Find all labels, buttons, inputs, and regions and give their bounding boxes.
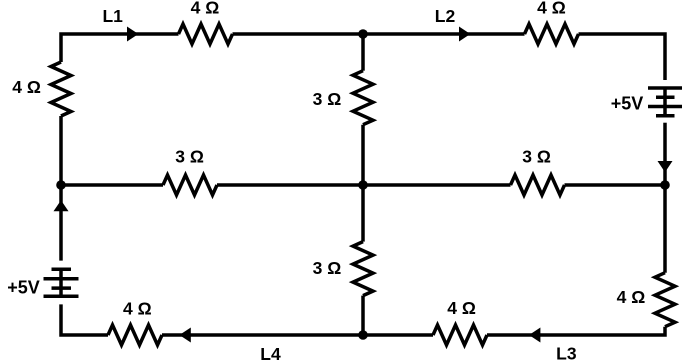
svg-text:4 Ω: 4 Ω (12, 77, 41, 97)
svg-text:3 Ω: 3 Ω (522, 147, 551, 167)
svg-text:L3: L3 (556, 344, 577, 364)
svg-text:+5V: +5V (611, 94, 644, 114)
svg-text:3 Ω: 3 Ω (175, 147, 204, 167)
svg-text:L2: L2 (435, 6, 456, 26)
svg-text:L4: L4 (260, 344, 281, 364)
svg-text:4 Ω: 4 Ω (447, 298, 476, 318)
svg-text:3 Ω: 3 Ω (313, 89, 342, 109)
svg-text:4 Ω: 4 Ω (617, 287, 646, 307)
svg-text:+5V: +5V (7, 278, 40, 298)
svg-text:3 Ω: 3 Ω (313, 258, 342, 278)
svg-text:L1: L1 (102, 6, 123, 26)
svg-text:4 Ω: 4 Ω (191, 0, 220, 18)
svg-text:4 Ω: 4 Ω (123, 298, 152, 318)
svg-text:4 Ω: 4 Ω (537, 0, 566, 18)
